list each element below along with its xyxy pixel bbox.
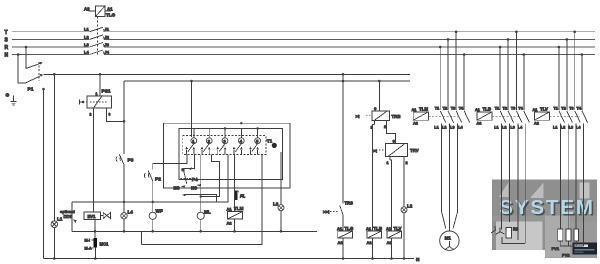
bracket rail 244 [142, 231, 263, 244]
junction L4 on rail202 [123, 201, 125, 203]
junction bus / lamp L1 branch [53, 73, 56, 76]
svg-text:L4: L4 [518, 126, 523, 130]
svg-text:TLB: TLB [374, 226, 383, 231]
wire bracket left up to rail232 [141, 231, 143, 244]
svg-text:L4: L4 [458, 126, 463, 130]
TLB contact 2 [508, 111, 514, 125]
contactor coil TLV control [387, 231, 402, 238]
wire TLB coil to N rail [372, 238, 374, 258]
svg-text:T3: T3 [569, 107, 573, 111]
svg-text:PV1: PV1 [552, 246, 560, 251]
wires TLM to motor M1 [442, 125, 458, 231]
svg-text:L3: L3 [84, 42, 89, 47]
svg-text:A1: A1 [366, 226, 372, 231]
svg-text:WF: WF [156, 208, 163, 213]
wire contact2 to P4 common [184, 154, 195, 172]
svg-text:L3: L3 [450, 126, 454, 130]
svg-text:1: 1 [192, 139, 195, 144]
lamp L4 [121, 213, 127, 219]
svg-text:1: 1 [96, 92, 98, 96]
wire bus2 down to program contact 1 [191, 81, 193, 137]
svg-text:A1: A1 [533, 108, 538, 112]
phase line R [12, 46, 595, 48]
contactor coil TLB control [367, 231, 382, 238]
wire N return down [43, 89, 45, 259]
svg-text:A2: A2 [227, 221, 233, 226]
svg-text:R9: R9 [513, 227, 519, 232]
wire lamp L1 to N rail [53, 228, 55, 259]
svg-text:L4: L4 [576, 126, 581, 130]
svg-text:>t: >t [356, 114, 360, 119]
heater element PV b [566, 229, 571, 241]
selector P4 blade [184, 172, 187, 184]
svg-text:M1: M1 [445, 236, 452, 241]
wire contact3b join [201, 154, 220, 196]
svg-text:MC1: MC1 [100, 242, 110, 247]
TRB pin 2 [386, 121, 388, 125]
svg-text:2: 2 [384, 125, 386, 129]
svg-text:TLV: TLV [540, 106, 548, 111]
svg-text:L3: L3 [569, 126, 573, 130]
TLM linkage dashed [428, 115, 461, 117]
PS1 pin bottom left [93, 108, 95, 112]
svg-text:A1: A1 [386, 226, 392, 231]
heater element PV a [558, 229, 563, 241]
TLM contact 4 [464, 111, 470, 123]
wire MC1 to N rail [94, 248, 96, 259]
svg-text:1: 1 [387, 161, 389, 165]
junction TLM on rail232 [233, 230, 236, 233]
svg-text:J1: J1 [105, 27, 110, 32]
wire L4 to rail232 [123, 219, 125, 231]
svg-text:TLV: TLV [394, 226, 402, 231]
wire junction down to P3 [123, 121, 125, 154]
svg-text:L4: L4 [84, 49, 89, 54]
thermostat TRB [372, 111, 390, 121]
svg-text:A2: A2 [367, 240, 373, 245]
svg-text:2: 2 [208, 139, 211, 144]
node dot N return start [42, 88, 45, 91]
timer T1 motor dot [272, 143, 277, 148]
TLV linkage dashed [550, 115, 580, 117]
svg-text:L1: L1 [84, 27, 89, 32]
phase line S [12, 38, 595, 40]
contactor TLV power coil [535, 112, 550, 120]
wire L3 to rail232 [280, 211, 282, 232]
wire TRB1 to TLB coil [373, 125, 375, 232]
svg-text:TRV: TRV [410, 148, 419, 153]
svg-text:L4: L4 [128, 210, 134, 215]
junction MC1 wire on rail232 [94, 230, 97, 233]
G2 drop wires [500, 32, 524, 110]
svg-text:ML: ML [204, 210, 211, 215]
R9 loop wire [502, 237, 525, 244]
contact L2-J2 [90, 35, 105, 40]
wire timer to lamp L3 [280, 152, 282, 205]
svg-text:TRB: TRB [392, 114, 401, 119]
wire L2 to N rail [403, 213, 405, 259]
junction dots on unit box edges [240, 122, 242, 124]
control bus top (switched N) [44, 73, 411, 75]
wire TLM coil to rail232 [234, 219, 236, 231]
TLV contact 4 [582, 111, 588, 125]
N return rail bottom [44, 258, 415, 260]
valve symbol [101, 215, 104, 217]
junction L3 on rail232 [280, 230, 283, 233]
switch P1 linkage dashed [38, 62, 40, 81]
wires TLB down to fan R9 [502, 125, 526, 244]
wire EV1 to MC1 [94, 220, 96, 239]
svg-text:L2: L2 [84, 34, 89, 39]
heater bottom wires [560, 241, 583, 246]
svg-text:3: 3 [224, 139, 227, 144]
float switch FL [235, 190, 238, 200]
svg-text:L2: L2 [561, 126, 565, 130]
svg-text:A1: A1 [107, 7, 113, 12]
svg-text:TLM: TLM [419, 106, 428, 111]
svg-text:T1: T1 [435, 107, 439, 111]
watermark logo panel [492, 180, 597, 259]
contactor coil TLG control [338, 231, 353, 238]
svg-text:M-I: M-I [85, 239, 90, 243]
contact L1-J1 [90, 27, 105, 32]
fan R9 symbol [491, 222, 504, 234]
svg-text:M-A: M-A [85, 247, 92, 251]
timer cam box dashed [183, 136, 266, 155]
pushbutton P2 [148, 171, 153, 181]
TLB contact 3 [516, 111, 522, 125]
svg-text:S: S [5, 37, 9, 43]
wire NO output to rail202 [184, 195, 216, 203]
G2 taps: junctions [499, 46, 502, 49]
wire bus down to lamp L1 [53, 74, 55, 221]
svg-text:P2: P2 [155, 177, 161, 183]
contact L4-J4 [90, 50, 105, 55]
svg-text:T1: T1 [495, 107, 499, 111]
svg-text:L3: L3 [510, 126, 514, 130]
R9 body [506, 228, 512, 239]
svg-text:T2: T2 [443, 107, 447, 111]
junction ML on rail232 [199, 230, 202, 233]
TLM contact 2 [448, 111, 454, 125]
wire TRS to TLG coil [342, 215, 344, 231]
svg-text:N: N [416, 257, 420, 263]
wire TRB2 to TRV [387, 125, 396, 144]
NO arrow [181, 185, 186, 187]
junction WF on rail202 [152, 201, 154, 203]
junction L4 on rail232 [123, 230, 126, 233]
svg-text:TLG: TLG [345, 226, 354, 231]
pressure switch PS1 body [87, 96, 112, 108]
main switch TLG contact break masks [89, 32, 104, 55]
G1 drop wires [440, 32, 464, 110]
contact L3-J3 [90, 43, 105, 48]
junction N tap P1 [17, 53, 20, 56]
junction MC1 on N rail [94, 257, 97, 260]
svg-text:T3: T3 [511, 107, 515, 111]
svg-text:A2: A2 [477, 122, 482, 126]
rail 202 [72, 201, 216, 203]
junction WF on rail232 [151, 230, 154, 233]
svg-text:T4: T4 [459, 107, 464, 111]
TRV pin 1 [389, 157, 391, 161]
wire WF to rail232 [152, 219, 154, 231]
svg-text:T4: T4 [577, 107, 582, 111]
TLV contact 2 [567, 111, 573, 125]
thermostat TRS feed from bus1 [342, 73, 345, 76]
TLV contact 1 [559, 111, 565, 125]
svg-text:G: G [6, 93, 10, 99]
svg-text:NO: NO [174, 185, 181, 190]
junction L1 on N rail [53, 257, 56, 260]
svg-text:T2: T2 [503, 107, 507, 111]
TLM contact 3 [456, 111, 462, 125]
junction ML feed [200, 195, 202, 197]
contactor TLM power coil [413, 112, 428, 120]
wire contact1 to P2 [153, 154, 187, 169]
wire P2 to WF motor [152, 181, 154, 212]
TRV pin 2 [403, 157, 405, 161]
svg-text:L1: L1 [494, 126, 498, 130]
wire PS1 right pin to bus2 drop [107, 112, 125, 121]
cam contact 3 [217, 129, 228, 155]
motor WF [149, 212, 156, 219]
motor M1 [440, 231, 459, 250]
G3 taps: junctions [558, 46, 561, 49]
svg-text:L1: L1 [57, 217, 63, 222]
wire ML to rail232 [200, 219, 202, 231]
svg-text:c: c [374, 106, 377, 111]
wire contact4a to rail202 right end [216, 154, 228, 202]
motor ML [197, 212, 204, 219]
neutral line N [12, 54, 595, 56]
svg-text:P4: P4 [192, 177, 198, 183]
cam contact 2 [201, 129, 212, 155]
lamp L1 [51, 221, 58, 228]
timer unit inner box [179, 129, 283, 180]
svg-text:A1: A1 [337, 226, 343, 231]
svg-text:A2: A2 [413, 122, 418, 126]
svg-text:N: N [5, 53, 9, 59]
svg-text:2: 2 [406, 161, 408, 165]
cam contact 1 [185, 129, 196, 155]
wire TRV2 to lamp L2 [403, 160, 405, 207]
svg-text:>>t: >>t [323, 209, 330, 214]
svg-text:J2: J2 [105, 34, 110, 39]
wire bus2 to TRB [378, 81, 380, 111]
svg-text:TLG: TLG [106, 13, 116, 18]
svg-text:L2: L2 [502, 126, 506, 130]
wire PS1 left pin down to EV1 [93, 112, 95, 212]
svg-text:L3: L3 [273, 202, 279, 207]
svg-text:A2: A2 [84, 7, 90, 12]
svg-text:A2: A2 [338, 240, 344, 245]
microswitch MC1 [94, 238, 97, 248]
switch P1 blade a [26, 63, 42, 69]
junction bus2 / program feed [190, 80, 193, 83]
G1 taps: junctions [439, 46, 442, 49]
contactor TLB power coil [477, 112, 492, 120]
phase line T [12, 31, 595, 33]
coil TLG lead A1 [105, 10, 111, 12]
wire contact5 down to bracket [261, 154, 263, 231]
switch P1 blade b arrowhead [40, 74, 43, 77]
pushbutton P3 [119, 154, 124, 164]
svg-text:J3: J3 [105, 42, 110, 47]
PS1 pin bottom right [106, 108, 108, 112]
svg-text:PV2: PV2 [562, 253, 570, 258]
junction R tap P1 [25, 46, 28, 49]
svg-text:A1: A1 [475, 108, 480, 112]
TLM contact 1 [440, 111, 446, 125]
rail 232 [72, 230, 317, 232]
lamp L3 [278, 205, 284, 211]
svg-text:J4: J4 [105, 49, 110, 54]
svg-text:TLM: TLM [234, 206, 244, 211]
svg-text:T3: T3 [451, 107, 455, 111]
cam contact 5 [249, 129, 260, 155]
junction bus2 TRB feed [378, 80, 381, 83]
svg-text:R: R [5, 45, 9, 51]
svg-text:T2: T2 [561, 107, 565, 111]
solenoid valve EV1 [84, 212, 101, 220]
wire R down to P1 pole a [25, 47, 27, 69]
svg-text:T: T [5, 30, 8, 36]
optional DD3 pointer arrow [73, 220, 77, 223]
lamp L4 feed [123, 202, 125, 213]
svg-text:P3: P3 [128, 158, 134, 164]
NC arrow [197, 184, 202, 186]
heater element PV c [574, 229, 579, 241]
relay coil TLG [96, 6, 106, 17]
PS1 dashed centerline [90, 101, 108, 103]
TLB contact 4 [524, 111, 530, 125]
TLB contact 1 [500, 111, 506, 125]
cam contact 4 [233, 129, 244, 155]
cam follower arrow [188, 168, 193, 170]
mechanical linkage TLG dashed [97, 17, 99, 57]
svg-text:NC: NC [191, 185, 197, 190]
TRB pin 1 [374, 121, 376, 125]
wire P3 to lamp L4 [123, 165, 125, 213]
svg-text:T4: T4 [518, 107, 523, 111]
thermostat TRV [386, 144, 408, 157]
PS1 internal blade [94, 95, 103, 108]
svg-text:L2: L2 [407, 204, 413, 209]
svg-text:T1: T1 [554, 107, 558, 111]
wire rail202 corner down to rail232 [71, 202, 73, 231]
control bus 2 [124, 80, 410, 82]
PS1 pressure port arrow [80, 101, 87, 103]
svg-text:DD3: DD3 [64, 214, 73, 219]
svg-text:A1: A1 [227, 206, 233, 211]
svg-text:L1: L1 [434, 126, 438, 130]
svg-text:SYSTEM: SYSTEM [499, 196, 594, 219]
selector P4 dashed link [181, 178, 192, 180]
svg-text:TRS: TRS [345, 200, 354, 205]
svg-text:PS1: PS1 [102, 88, 111, 94]
svg-text:EV1: EV1 [88, 214, 97, 219]
wire TRV1 to TLV coil [390, 160, 392, 231]
svg-text:FL: FL [240, 194, 246, 199]
svg-text:TLB: TLB [483, 106, 492, 111]
svg-text:T1: T1 [267, 139, 273, 144]
svg-text:3: 3 [109, 113, 111, 117]
svg-text:>t: >t [373, 148, 377, 153]
wire TLG coil to N rail [342, 238, 344, 258]
contactor coil TLM control [227, 212, 242, 220]
svg-text:5: 5 [256, 139, 259, 144]
NO output arrow [182, 194, 187, 196]
TLV contact 3 [575, 111, 581, 125]
svg-text:A1: A1 [412, 108, 417, 112]
junction bus / PS1 feed [99, 73, 102, 76]
wire bus to PS1 [99, 74, 101, 96]
svg-text:4: 4 [240, 139, 243, 144]
svg-text:A2: A2 [534, 122, 539, 126]
wire TLV coil to N rail [391, 238, 393, 258]
wire bus2 corner down to PS1 junction [123, 81, 125, 121]
junction at x124 [123, 120, 126, 123]
lamp L2 [401, 207, 407, 213]
wire N down to P1 pole b [18, 55, 26, 84]
switch P1 blade a arrowhead [40, 62, 43, 65]
svg-text:2: 2 [90, 113, 92, 117]
svg-text:L2: L2 [442, 126, 446, 130]
wire contact3 to ML [200, 154, 202, 212]
svg-text:P1: P1 [28, 87, 34, 93]
wires TLV down to heaters [560, 125, 583, 246]
G3 drop wires [559, 32, 582, 110]
TLB linkage dashed [492, 115, 521, 117]
switch P1 blade b [26, 75, 42, 83]
wire contact4b to TLM coil via FL [234, 154, 236, 211]
timer unit outer box [164, 123, 290, 188]
svg-text:L1: L1 [553, 126, 557, 130]
coil TLG lead A2 [89, 10, 96, 12]
